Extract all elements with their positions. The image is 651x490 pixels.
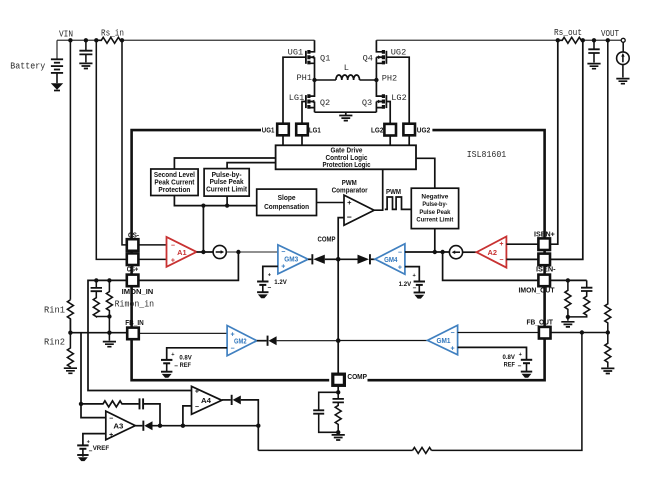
svg-text:GM3: GM3 xyxy=(284,256,298,263)
svg-text:A3: A3 xyxy=(113,423,123,430)
svg-text:−: − xyxy=(195,404,199,411)
svg-text:−: − xyxy=(451,330,455,337)
svg-text:VOUT: VOUT xyxy=(601,29,619,39)
svg-text:Compensation: Compensation xyxy=(264,204,309,211)
svg-text:−: − xyxy=(268,284,272,291)
svg-text:−: − xyxy=(347,212,352,222)
svg-text:VIN: VIN xyxy=(59,29,73,39)
svg-text:Battery: Battery xyxy=(10,61,46,71)
svg-text:Rs_out: Rs_out xyxy=(554,28,582,38)
svg-text:Q3: Q3 xyxy=(362,98,372,108)
svg-text:−: − xyxy=(499,257,503,264)
svg-text:REF: REF xyxy=(180,362,191,369)
svg-text:1.2V: 1.2V xyxy=(274,279,287,286)
svg-text:Protection Logic: Protection Logic xyxy=(323,162,371,169)
svg-text:−: − xyxy=(109,416,113,423)
svg-text:Peak Current: Peak Current xyxy=(154,179,195,186)
svg-text:IMON_IN: IMON_IN xyxy=(122,289,154,296)
svg-text:A2: A2 xyxy=(488,250,498,257)
svg-text:+: + xyxy=(109,432,113,439)
svg-text:PH2: PH2 xyxy=(382,73,397,83)
svg-text:+: + xyxy=(195,389,199,396)
svg-text:UG2: UG2 xyxy=(391,47,406,57)
svg-text:FB_IN: FB_IN xyxy=(125,320,143,327)
svg-text:CS-: CS- xyxy=(128,232,140,239)
svg-text:VREF: VREF xyxy=(93,445,109,452)
svg-text:Gate Drive: Gate Drive xyxy=(331,148,363,155)
svg-text:ISEN-: ISEN- xyxy=(536,266,556,273)
svg-text:LG2: LG2 xyxy=(371,128,384,135)
svg-text:Rs_in: Rs_in xyxy=(101,29,124,39)
svg-text:+: + xyxy=(451,345,455,352)
svg-text:Q2: Q2 xyxy=(320,98,330,108)
svg-text:PWM: PWM xyxy=(386,189,401,196)
svg-text:LG2: LG2 xyxy=(391,93,406,103)
svg-text:GM1: GM1 xyxy=(437,338,451,345)
svg-text:UG2: UG2 xyxy=(417,128,431,135)
svg-text:Negative: Negative xyxy=(421,193,448,200)
svg-text:Rimon_in: Rimon_in xyxy=(115,300,155,310)
svg-text:CS+: CS+ xyxy=(127,267,139,274)
svg-text:IMON_OUT: IMON_OUT xyxy=(519,288,556,295)
svg-text:PH1: PH1 xyxy=(297,73,312,83)
svg-text:LG1: LG1 xyxy=(309,127,321,134)
svg-text:−: − xyxy=(171,243,175,250)
svg-text:L: L xyxy=(344,63,349,73)
svg-text:Pulse Peak: Pulse Peak xyxy=(419,209,450,216)
svg-text:−: − xyxy=(174,363,178,370)
svg-text:−: − xyxy=(413,285,417,292)
svg-text:GM2: GM2 xyxy=(234,338,247,345)
svg-text:+: + xyxy=(499,241,503,248)
svg-text:Second Level: Second Level xyxy=(154,172,195,179)
svg-text:FB_OUT: FB_OUT xyxy=(527,320,554,327)
svg-text:0.8V: 0.8V xyxy=(503,354,516,361)
svg-text:COMP: COMP xyxy=(318,236,336,243)
svg-text:Rin1: Rin1 xyxy=(44,306,65,316)
svg-text:+: + xyxy=(398,265,402,272)
svg-text:1.2V: 1.2V xyxy=(399,281,412,288)
svg-text:REF: REF xyxy=(504,362,515,369)
svg-text:Pulse Peak: Pulse Peak xyxy=(210,179,244,186)
svg-text:UG1: UG1 xyxy=(262,127,275,134)
svg-text:Q1: Q1 xyxy=(320,54,330,64)
svg-text:UG1: UG1 xyxy=(288,47,303,57)
svg-text:GM4: GM4 xyxy=(384,257,397,264)
svg-text:Current Limit: Current Limit xyxy=(206,187,248,194)
svg-text:Slope: Slope xyxy=(278,195,296,202)
svg-text:−: − xyxy=(518,363,522,370)
svg-text:COMP: COMP xyxy=(347,374,367,381)
svg-text:Control Logic: Control Logic xyxy=(326,155,368,162)
svg-text:−: − xyxy=(230,346,234,353)
svg-text:ISEN+: ISEN+ xyxy=(534,232,555,239)
svg-text:Comparator: Comparator xyxy=(332,187,368,194)
svg-text:−: − xyxy=(398,249,402,256)
svg-text:Pulse-by-: Pulse-by- xyxy=(212,172,243,179)
svg-text:0.8V: 0.8V xyxy=(179,355,192,362)
svg-text:Protection: Protection xyxy=(158,187,190,194)
svg-text:Current Limit: Current Limit xyxy=(416,217,454,224)
svg-text:+: + xyxy=(347,198,352,207)
svg-text:−: − xyxy=(281,249,285,256)
svg-text:+: + xyxy=(171,258,175,265)
svg-text:+: + xyxy=(281,264,285,271)
svg-text:LG1: LG1 xyxy=(289,93,304,103)
svg-text:Pulse-by-: Pulse-by- xyxy=(422,201,447,208)
svg-text:PWM: PWM xyxy=(342,180,357,187)
svg-text:Rin2: Rin2 xyxy=(44,338,65,348)
svg-text:A1: A1 xyxy=(177,250,187,257)
svg-text:Q4: Q4 xyxy=(363,54,373,64)
svg-text:ISL81601: ISL81601 xyxy=(467,150,507,160)
svg-text:A4: A4 xyxy=(201,398,211,405)
